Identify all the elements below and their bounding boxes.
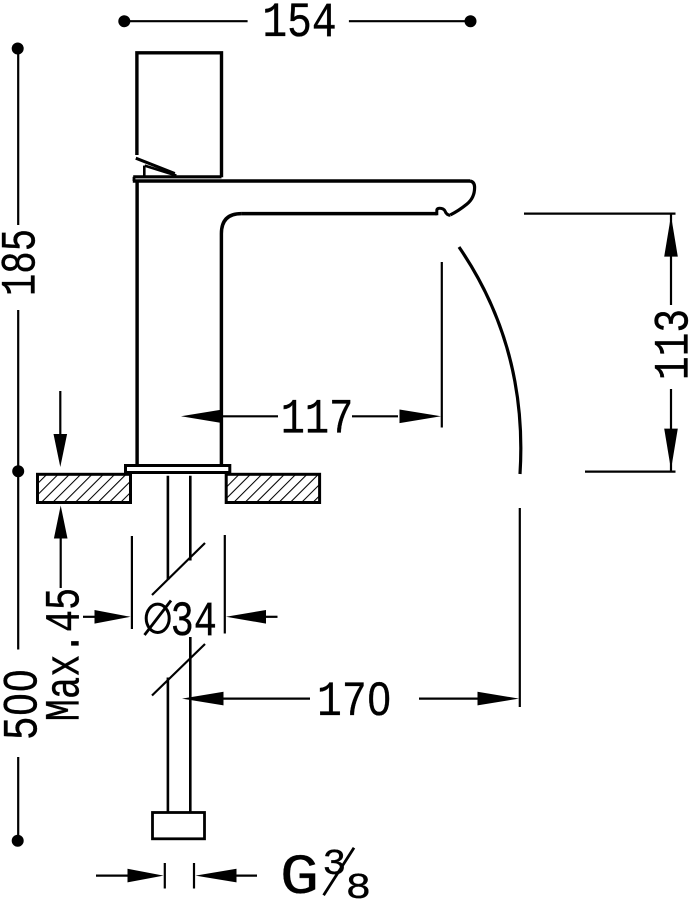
riser left edge xyxy=(135,181,138,466)
dim G3/8: fraction slash xyxy=(324,848,354,896)
spout tip outer curve xyxy=(451,181,475,215)
dim Ø34: left arrow pointing right xyxy=(83,616,95,618)
base flange xyxy=(126,466,230,473)
dim 185/500: vertical dimension line xyxy=(17,48,19,841)
svg-text:G: G xyxy=(280,847,319,900)
svg-text:8: 8 xyxy=(346,868,372,900)
dim 113: vertical dimension line xyxy=(670,214,672,472)
aerator lip xyxy=(437,208,451,215)
dim 154: dimension line xyxy=(124,20,470,22)
dim 113: top reference line xyxy=(524,213,676,215)
dim Max.45: lower arrow (up) xyxy=(54,506,68,539)
dim 113: arrowhead up xyxy=(664,216,678,257)
svg-text:Max.45: Max.45 xyxy=(39,588,94,722)
dim G3/8: left tick xyxy=(164,863,166,889)
dim 185/500: shared dot at counter level xyxy=(12,465,24,477)
shank right line xyxy=(189,476,192,813)
svg-text:34: 34 xyxy=(171,595,217,651)
pipe break diagonal upper xyxy=(152,543,205,595)
water stream curve xyxy=(459,247,521,474)
dim Ø34: right arrow pointing left xyxy=(226,610,266,624)
spout underside line xyxy=(241,212,436,216)
dim 170: left arrowhead at pipe axis xyxy=(182,692,224,706)
white patch over mono zero dot (500) xyxy=(15,701,25,709)
riser right edge with corner arc xyxy=(221,214,241,466)
dim Ø34: right extension line xyxy=(224,535,226,634)
dim G3/8: right tick xyxy=(193,863,195,889)
dim 170: dimension line xyxy=(224,697,479,699)
cap triangle left edge xyxy=(143,166,146,177)
cap triangle hypotenuse xyxy=(145,166,177,176)
dim Ø34: diameter symbol xyxy=(146,604,169,632)
supply connector block xyxy=(153,813,205,839)
dim 154: endpoint dot right xyxy=(465,15,477,27)
svg-text:113: 113 xyxy=(648,309,691,380)
dim 500: endpoint dot bottom xyxy=(12,835,24,847)
dim 154: endpoint dot left xyxy=(118,15,130,27)
dim Max.45: upper arrow (down) xyxy=(59,391,61,436)
dim 117: dimension line xyxy=(223,415,399,417)
svg-text:185: 185 xyxy=(0,229,50,296)
dim 170: right arrowhead xyxy=(478,692,520,706)
dim 117: right arrowhead xyxy=(400,410,442,424)
faucet lever handle outline xyxy=(137,53,222,177)
handle bottom diagonal xyxy=(136,158,175,173)
dim G3/8: right arrow line xyxy=(196,869,237,883)
svg-text:117: 117 xyxy=(281,391,354,448)
dim G3/8: left arrow line xyxy=(96,874,128,876)
handle base line xyxy=(133,175,221,178)
white patch over mono zero dot (170) xyxy=(375,694,383,704)
dim 117: extension line below spout xyxy=(441,262,443,428)
dim 170: extension line at stream end xyxy=(519,508,521,707)
shank left line xyxy=(167,476,170,813)
dim 113: bottom reference line xyxy=(585,471,676,473)
dim Ø34: left extension line xyxy=(131,536,133,629)
dim 113: arrowhead down xyxy=(664,429,678,470)
dim 117: left arrowhead at axis xyxy=(181,410,223,424)
svg-text:154: 154 xyxy=(262,0,336,51)
countertop right slab (hatched) xyxy=(226,474,319,502)
dim 185: endpoint dot top xyxy=(12,43,24,55)
cartridge cap step xyxy=(133,177,136,181)
spout deck top line xyxy=(133,179,470,183)
pipe break diagonal lower xyxy=(152,644,205,696)
countertop left slab (hatched) xyxy=(38,474,131,502)
